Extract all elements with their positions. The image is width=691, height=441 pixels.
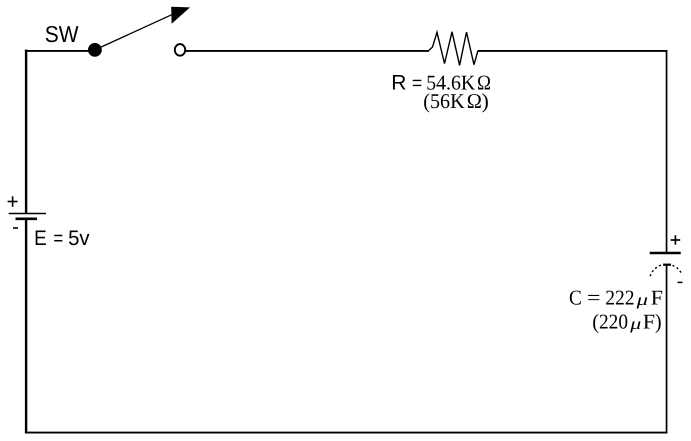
- battery long plate (positive): [9, 213, 46, 215]
- wire bottom: [25, 432, 667, 434]
- svg-text:μ: μ: [629, 314, 641, 333]
- switch arm wire: [95, 15, 172, 50]
- svg-text:(56K: (56K: [423, 89, 464, 113]
- capacitor minus sign: [678, 281, 683, 283]
- battery minus sign: [13, 227, 18, 229]
- svg-text:F: F: [643, 309, 655, 333]
- svg-text:220: 220: [599, 309, 628, 333]
- svg-text:=: =: [412, 73, 422, 95]
- resistor R: [391, 32, 491, 113]
- svg-text:=: =: [587, 285, 600, 309]
- wire right vertical (below capacitor): [666, 265, 668, 434]
- svg-text:SW: SW: [45, 21, 79, 47]
- wire top right segment: [478, 50, 667, 52]
- battery E: [8, 196, 90, 250]
- svg-text:Ω: Ω: [467, 89, 482, 113]
- svg-text:E: E: [34, 227, 47, 250]
- resistor zigzag: [429, 32, 478, 66]
- svg-text:F: F: [651, 285, 663, 309]
- capacitor C: [569, 235, 683, 333]
- wire right vertical (above capacitor): [666, 50, 668, 252]
- switch open contact circle: [175, 44, 185, 56]
- svg-text:(: (: [592, 309, 599, 333]
- capacitor plus sign: [671, 239, 681, 241]
- svg-text:5v: 5v: [68, 227, 90, 250]
- svg-text:R: R: [391, 72, 406, 95]
- wire left vertical (top half): [25, 50, 27, 214]
- svg-text:=: =: [53, 227, 63, 250]
- capacitor curved plate: [650, 264, 682, 276]
- svg-text:): ): [655, 309, 662, 333]
- svg-text:): ): [482, 89, 489, 113]
- switch pole dot: [88, 43, 102, 57]
- svg-text:C: C: [569, 285, 582, 309]
- switch SW: [45, 7, 190, 57]
- svg-text:222: 222: [605, 285, 634, 309]
- wire left vertical (bottom half): [25, 220, 27, 434]
- capacitor curved plate apex bar: [663, 264, 671, 266]
- svg-text:μ: μ: [635, 290, 648, 309]
- capacitor flat plate: [650, 252, 681, 255]
- switch arm arrowhead: [171, 7, 190, 24]
- battery plus sign: [8, 201, 18, 203]
- battery short plate (negative): [16, 218, 38, 221]
- wire top middle segment: [186, 50, 429, 52]
- wire top-left segment: [25, 50, 90, 52]
